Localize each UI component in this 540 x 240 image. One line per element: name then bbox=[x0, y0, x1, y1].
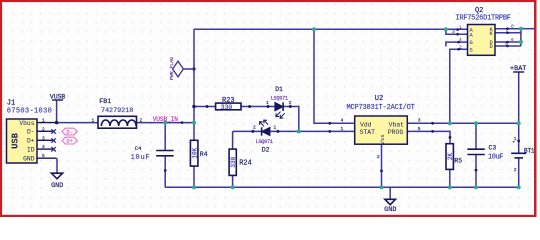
battery BT1 bbox=[511, 136, 535, 173]
svg-text:10K: 10K bbox=[191, 147, 198, 158]
svg-text:Vss: Vss bbox=[379, 134, 386, 144]
svg-text:R24: R24 bbox=[239, 160, 252, 168]
power +BAT bbox=[510, 65, 526, 73]
label D+ hierarchical bbox=[62, 137, 77, 145]
svg-text:2K: 2K bbox=[447, 153, 454, 161]
svg-text:G: G bbox=[470, 40, 473, 46]
svg-text:D2: D2 bbox=[262, 146, 270, 153]
wire FB1 pin2 to VUSB_IN node bbox=[137, 122, 195, 124]
svg-text:1: 1 bbox=[341, 126, 344, 132]
node VUSB_IN label anchor bbox=[181, 121, 184, 124]
svg-text:MCP73831T-2ACI/OT: MCP73831T-2ACI/OT bbox=[347, 104, 415, 112]
svg-text:GND: GND bbox=[51, 182, 63, 190]
svg-text:2: 2 bbox=[377, 154, 380, 160]
svg-text:BT1: BT1 bbox=[524, 148, 535, 155]
svg-text:330: 330 bbox=[221, 104, 233, 111]
svg-text:PROG: PROG bbox=[388, 129, 404, 136]
node Q2 D junction bbox=[519, 40, 523, 44]
svg-text:1: 1 bbox=[459, 25, 462, 31]
node Vbat / C3 bbox=[474, 121, 478, 125]
svg-text:10uF: 10uF bbox=[131, 154, 150, 162]
svg-text:USB: USB bbox=[11, 132, 21, 149]
svg-text:R4: R4 bbox=[200, 151, 208, 158]
svg-text:1: 1 bbox=[92, 117, 95, 123]
wire U2 Vss drop bbox=[381, 144, 383, 187]
svg-text:+BAT: +BAT bbox=[510, 65, 526, 73]
svg-text:3: 3 bbox=[42, 135, 45, 141]
wire Q2 S down to Vbat bbox=[450, 49, 468, 123]
resistor R5 bbox=[446, 136, 462, 169]
wire BT1 bottom bbox=[518, 158, 520, 187]
node R23 tap bbox=[192, 105, 196, 109]
node Q2 K junction bbox=[519, 27, 523, 31]
wire R24 bottom bbox=[232, 175, 234, 187]
svg-text:10uF: 10uF bbox=[488, 154, 503, 162]
node VUSB_IN/main vertical bbox=[192, 121, 196, 125]
resistor R4 bbox=[190, 140, 207, 166]
svg-text:1: 1 bbox=[266, 100, 269, 106]
svg-text:1: 1 bbox=[42, 118, 45, 124]
svg-text:4: 4 bbox=[42, 144, 45, 150]
svg-text:1: 1 bbox=[274, 125, 277, 131]
svg-text:R5: R5 bbox=[454, 158, 462, 165]
wire C3 top bbox=[475, 123, 477, 149]
no-connect X pin4 bbox=[51, 147, 55, 151]
svg-text:8: 8 bbox=[511, 24, 514, 30]
svg-text:D: D bbox=[490, 44, 493, 50]
svg-text:GND: GND bbox=[23, 156, 35, 163]
svg-text:Vbat: Vbat bbox=[389, 121, 405, 128]
ferrite bead FB1 bbox=[92, 98, 143, 128]
svg-text:2: 2 bbox=[253, 125, 256, 131]
svg-text:C3: C3 bbox=[489, 144, 497, 151]
wire C4 top bbox=[164, 123, 166, 151]
svg-text:Vdd: Vdd bbox=[360, 121, 372, 128]
node PWR_FLAG attach bbox=[192, 67, 195, 70]
svg-text:STAT: STAT bbox=[360, 129, 376, 136]
svg-text:1: 1 bbox=[514, 136, 517, 142]
wire Q2 G stub bbox=[446, 42, 468, 46]
wire C4 bottom bbox=[164, 156, 166, 188]
flag PWR_FLAG bbox=[169, 57, 194, 80]
svg-text:3: 3 bbox=[418, 118, 421, 124]
IC U2 MCP73831 bbox=[328, 95, 434, 172]
ground GND (J1) bbox=[51, 173, 63, 190]
wire C3 bottom bbox=[475, 155, 477, 188]
node rail R4 bbox=[192, 185, 196, 189]
svg-text:S: S bbox=[470, 47, 473, 53]
node rail R5 bbox=[448, 185, 452, 189]
junctions green bbox=[163, 27, 523, 190]
svg-text:D+: D+ bbox=[27, 138, 35, 145]
node D1 cathode / STAT bbox=[297, 129, 301, 133]
node Q2 A / top bus bbox=[444, 27, 448, 31]
wire D1 cathode down to STAT row bbox=[283, 107, 299, 132]
svg-text:330: 330 bbox=[230, 156, 237, 167]
svg-text:2: 2 bbox=[289, 100, 292, 106]
svg-text:ID: ID bbox=[27, 146, 35, 153]
junctions dark bbox=[55, 67, 196, 124]
svg-text:5: 5 bbox=[418, 126, 421, 132]
node Vbat / BT1 bbox=[517, 121, 521, 125]
label D- hierarchical bbox=[62, 128, 77, 135]
capacitor C3 bbox=[467, 144, 503, 171]
svg-text:Vbus: Vbus bbox=[19, 120, 34, 127]
ground GND (U2) bbox=[384, 199, 396, 214]
node rail C3 bbox=[474, 185, 478, 189]
LED D1 bbox=[266, 86, 292, 118]
svg-text:C4: C4 bbox=[135, 145, 142, 152]
wire R24 drop bbox=[232, 131, 234, 149]
wire J1 pin5 to GND symbol bbox=[56, 158, 58, 173]
transistor Q2 FETKY bbox=[452, 7, 514, 55]
svg-text:2: 2 bbox=[42, 126, 45, 132]
wire J1 GND drop bbox=[56, 100, 58, 123]
node rail BT1 bbox=[517, 185, 521, 189]
wire output to right edge bbox=[521, 28, 535, 30]
wire R23 to D1 bbox=[241, 106, 275, 108]
svg-text:D-: D- bbox=[27, 129, 35, 136]
svg-text:6: 6 bbox=[511, 37, 514, 43]
node rail R24 bbox=[231, 185, 235, 189]
svg-text:D-: D- bbox=[66, 130, 72, 136]
svg-text:3: 3 bbox=[452, 29, 455, 35]
node top bus / U2 feed bbox=[312, 27, 316, 31]
node Vbat / Q2 S bbox=[448, 121, 452, 125]
svg-text:D1: D1 bbox=[275, 86, 283, 93]
svg-text:VUSB: VUSB bbox=[50, 93, 66, 100]
wire +BAT stem bbox=[518, 72, 520, 123]
resistor R24 bbox=[229, 149, 252, 175]
svg-text:D+: D+ bbox=[66, 139, 72, 145]
no-connect X pin3 bbox=[51, 138, 55, 142]
node J1 Vbus / VUSB bbox=[55, 121, 59, 125]
wire R5 bottom bbox=[449, 169, 451, 187]
power VUSB bbox=[50, 93, 66, 100]
node rail Vss bbox=[380, 185, 384, 189]
svg-text:4: 4 bbox=[341, 118, 344, 124]
svg-text:5: 5 bbox=[42, 153, 45, 159]
LED D2 bbox=[251, 120, 279, 153]
svg-text:74279218: 74279218 bbox=[101, 107, 133, 115]
wire Vbat row bbox=[407, 122, 518, 124]
wire top bus y=29 bbox=[194, 28, 446, 30]
svg-text:U2: U2 bbox=[375, 95, 383, 103]
wire GND rail y=187.3 bbox=[165, 186, 519, 188]
wire BT1 top bbox=[518, 123, 520, 153]
svg-text:GND: GND bbox=[384, 206, 396, 214]
svg-text:VUSB_IN: VUSB_IN bbox=[153, 116, 179, 123]
connector J1 USB bbox=[7, 100, 57, 164]
svg-text:PWR_FLAG: PWR_FLAG bbox=[169, 57, 175, 80]
wire STAT row y=131.4 bbox=[233, 130, 355, 132]
wire VUSB bus from J1 pin1 to FB1 bbox=[57, 122, 98, 124]
wire Q2 A pins bar bbox=[446, 29, 468, 34]
svg-text:FB1: FB1 bbox=[99, 98, 111, 105]
node C4/VUSB_IN bbox=[163, 121, 167, 125]
no-connect X pin2 bbox=[51, 129, 55, 133]
wire main vertical VUSB_IN x=194 bbox=[193, 29, 195, 140]
wire Q2 D bar bbox=[495, 41, 521, 43]
svg-text:2: 2 bbox=[514, 167, 517, 173]
svg-text:IRF7526D1TRPBF: IRF7526D1TRPBF bbox=[456, 15, 512, 23]
svg-text:LGQ971: LGQ971 bbox=[256, 139, 273, 145]
resistor R23 bbox=[206, 97, 252, 111]
svg-text:J1: J1 bbox=[7, 100, 15, 108]
svg-text:2: 2 bbox=[140, 117, 143, 123]
wire vertical feed to U2 Vdd x=314 bbox=[314, 29, 355, 123]
svg-text:LSQ971: LSQ971 bbox=[271, 95, 288, 101]
wire R4 bottom bbox=[193, 166, 195, 187]
wire R23 tap bbox=[194, 106, 216, 108]
capacitor C4 bbox=[131, 145, 174, 172]
wire GND2 stem bbox=[389, 187, 391, 199]
wire PROG to R5 bbox=[407, 131, 450, 143]
svg-text:67503-1030: 67503-1030 bbox=[7, 108, 52, 116]
wire Q2 K bar bbox=[520, 29, 522, 46]
